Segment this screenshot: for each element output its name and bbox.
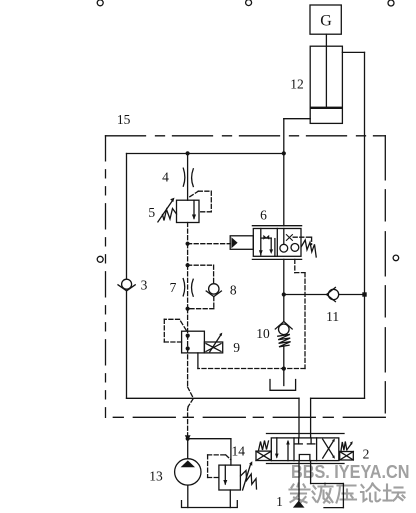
wire G to cylinder rod xyxy=(325,34,327,46)
svg-text:6: 6 xyxy=(260,207,267,222)
node pilot junction A xyxy=(186,242,190,246)
valve 6 body xyxy=(252,226,301,260)
valve2 centre position internals xyxy=(295,438,315,461)
throttle 4 xyxy=(183,154,193,201)
svg-text:15: 15 xyxy=(117,112,131,127)
svg-text:8: 8 xyxy=(230,282,237,297)
watermark chinese glyph ai xyxy=(290,484,310,503)
node square junction right rail xyxy=(362,292,366,296)
svg-text:4: 4 xyxy=(162,170,169,185)
throttle 7 xyxy=(183,279,193,297)
WATERMARK-LAYER xyxy=(291,462,410,482)
valve6 vent dashed xyxy=(293,237,311,244)
svg-text:5: 5 xyxy=(148,205,155,220)
node valve6 outlet junction xyxy=(282,292,286,296)
wire bottom rail left xyxy=(127,397,300,399)
valve2 left solenoid xyxy=(256,441,271,461)
tank symbol upper xyxy=(270,380,296,391)
wire valve14 to tank xyxy=(229,490,231,508)
wire cap-side port xyxy=(284,118,310,120)
watermark chinese glyph ye xyxy=(313,484,333,503)
svg-text:13: 13 xyxy=(149,469,163,484)
pump 13 xyxy=(175,459,201,485)
svg-text:12: 12 xyxy=(290,76,304,91)
check valve 3 xyxy=(118,279,135,291)
wire pilot node A to node B xyxy=(187,244,189,266)
valve6 spring xyxy=(301,240,316,257)
valve2 right position internals xyxy=(323,439,335,459)
wire pump junction to pump xyxy=(187,439,189,459)
node drain junction xyxy=(282,367,286,371)
generator box G xyxy=(310,5,341,34)
valve5 pilot dashed xyxy=(190,191,212,212)
drain dashed manifold xyxy=(198,259,305,368)
wire left rail upper xyxy=(126,154,128,280)
valve 9 xyxy=(182,331,223,353)
svg-text:11: 11 xyxy=(326,309,339,324)
decor pin holes xyxy=(97,0,399,262)
svg-text:10: 10 xyxy=(256,326,270,341)
svg-text:7: 7 xyxy=(170,280,177,295)
valve 6 pilot actuator xyxy=(230,236,253,250)
svg-text:9: 9 xyxy=(233,340,240,355)
wire dashed through throttle 7 xyxy=(187,265,189,309)
node pilot junction C xyxy=(186,307,190,311)
relief valve 14 xyxy=(219,461,257,490)
wire right rail xyxy=(364,52,366,398)
node junction top rail/cyl xyxy=(282,151,286,155)
wire rod-side port xyxy=(342,51,364,53)
wire node to check10 xyxy=(283,295,285,322)
wire valve2 P port to filter 1 xyxy=(298,461,300,501)
node pump junction xyxy=(185,435,191,441)
watermark chinese glyph lun xyxy=(361,484,380,502)
wire bottom rail right xyxy=(311,397,365,399)
node pilot junction B xyxy=(186,263,190,267)
valve6 left position internals xyxy=(259,229,275,257)
watermark chinese glyph ya xyxy=(337,486,357,503)
valve6 right position internals xyxy=(280,229,299,253)
valve9 pilot dashed loop xyxy=(164,319,186,342)
cylinder 12 xyxy=(310,46,342,123)
svg-text:3: 3 xyxy=(141,278,148,293)
svg-text:14: 14 xyxy=(231,443,245,458)
check valve 8 xyxy=(206,284,221,297)
svg-text:2: 2 xyxy=(363,446,370,461)
tank symbol main xyxy=(182,501,238,508)
wire dashed jog to pump junction xyxy=(187,407,190,439)
wire down into tank xyxy=(283,369,285,386)
valve14 pilot dashed xyxy=(208,455,231,478)
svg-text:1: 1 xyxy=(276,494,283,509)
wire top rail xyxy=(127,153,284,155)
svg-text:BBS. IYEYA.CN: BBS. IYEYA.CN xyxy=(291,462,410,482)
wire line to check11 xyxy=(284,294,365,296)
svg-text:G: G xyxy=(320,12,332,29)
wire valve2 port A riser xyxy=(298,398,300,438)
wire valve9 drain stub xyxy=(197,353,199,369)
valve 2 body xyxy=(267,434,345,464)
wire valve6 outlet down xyxy=(283,259,285,294)
wire dashed down through valve 9 to pump junction xyxy=(187,309,189,387)
suction marker 1 xyxy=(293,501,305,508)
wire valve2 port B riser xyxy=(310,398,312,438)
check valve 10 with spring xyxy=(275,322,292,369)
wire pump junction to valve14 xyxy=(188,438,231,440)
wire cylinder to valve 6 xyxy=(283,119,285,226)
wire pilot main dashed valve5 to node xyxy=(187,223,189,244)
check valve 11 xyxy=(327,287,339,301)
wire valve2 T port return xyxy=(311,461,344,508)
valve2 right solenoid xyxy=(340,441,354,460)
wire pilot to valve6 actuator xyxy=(188,243,231,245)
wire supply riser to valve14 xyxy=(230,439,232,465)
enclosure dashed box 15 xyxy=(106,136,386,418)
wire dashed jog across bottom rail xyxy=(188,387,194,407)
wire pump to tank xyxy=(187,485,189,507)
sequence valve 5 xyxy=(158,198,199,223)
watermark chinese glyph tan xyxy=(384,485,405,501)
wire left rail lower xyxy=(126,291,128,399)
wire dashed branch to check 8 xyxy=(188,265,214,309)
valve2 left position internals xyxy=(275,438,290,461)
node junction top rail/throttle4 xyxy=(186,151,190,155)
node valve9 pilot taps xyxy=(186,334,190,351)
